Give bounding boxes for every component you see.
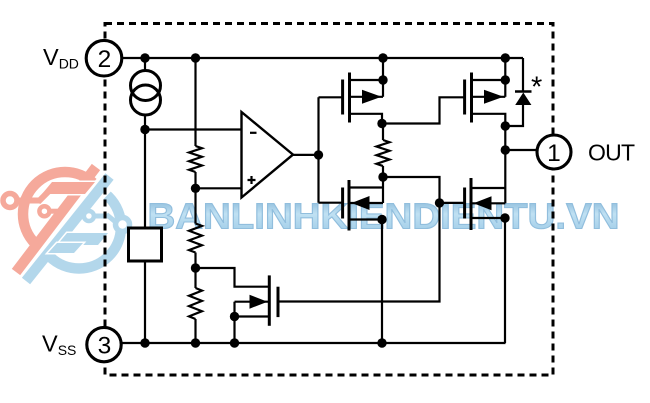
svg-text:*: * [531, 72, 542, 104]
svg-text:BANLINHKIENDIENTU.VN: BANLINHKIENDIENTU.VN [148, 196, 620, 237]
svg-text:2: 2 [98, 46, 112, 73]
svg-text:1: 1 [547, 140, 561, 167]
svg-text:3: 3 [98, 333, 112, 360]
svg-text:OUT: OUT [588, 140, 635, 166]
